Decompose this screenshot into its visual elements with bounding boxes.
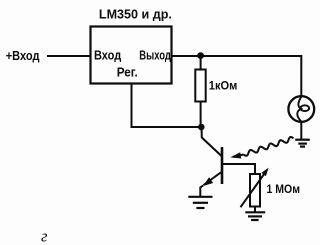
svg-text:Выход: Выход — [139, 48, 171, 63]
regulator U1 LM350 box — [91, 27, 172, 84]
lamp HL1 filament — [298, 97, 302, 110]
wire collector — [202, 127, 222, 156]
light arrow shaft — [233, 155, 244, 157]
wire R2 to ground — [254, 207, 256, 213]
wire output — [172, 56, 301, 96]
svg-text:1кОм: 1кОм — [209, 78, 238, 92]
wire input — [47, 55, 90, 57]
wire emitter to ground — [200, 185, 203, 196]
resistor R2 1 МОм — [250, 174, 260, 207]
wire base — [223, 164, 255, 174]
svg-text:LM350 и др.: LM350 и др. — [99, 6, 172, 21]
ground emitter — [188, 197, 212, 208]
wire R1 bottom lead — [200, 102, 202, 128]
light arrow squiggle — [244, 137, 294, 156]
node A — [197, 52, 204, 59]
svg-text:г: г — [41, 227, 48, 245]
transistor VT1 emitter — [204, 172, 222, 185]
transistor VT1 base bar — [221, 147, 224, 184]
resistor R2 arrow shaft — [241, 174, 265, 208]
svg-text:+Вход: +Вход — [6, 48, 40, 63]
wire Рег. pin — [132, 84, 202, 127]
resistor R1 — [195, 70, 205, 102]
resistor R2 arrow head — [261, 168, 268, 177]
light arrow head — [230, 152, 241, 158]
transistor VT1 emitter arrow — [203, 177, 213, 186]
svg-text:1 МОм: 1 МОм — [267, 182, 301, 196]
ground R2 — [245, 212, 265, 220]
wire R1 top lead — [200, 56, 202, 70]
svg-text:Вход: Вход — [94, 48, 122, 63]
node B — [198, 124, 205, 131]
wire lamp to ground — [300, 122, 302, 140]
lamp HL1 — [288, 96, 314, 122]
ground lamp — [295, 140, 310, 147]
svg-text:Рег.: Рег. — [117, 65, 138, 80]
